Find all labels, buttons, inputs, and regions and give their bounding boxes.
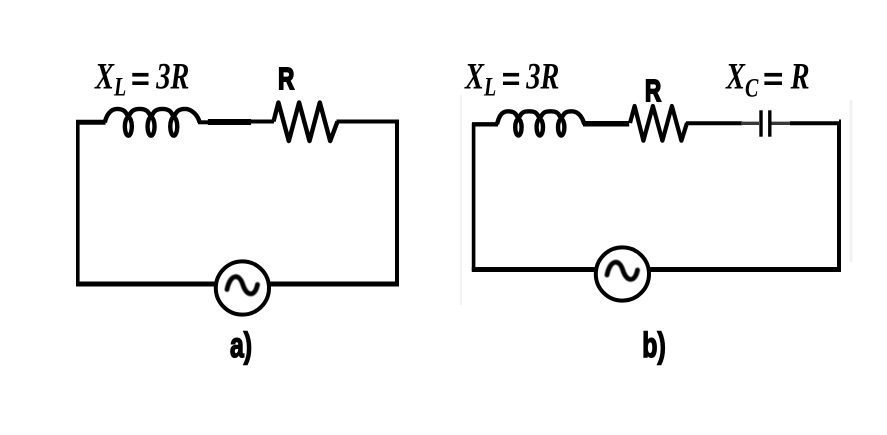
svg-text:XL: XL bbox=[94, 57, 126, 102]
svg-text:3R: 3R bbox=[525, 57, 559, 97]
svg-text:XL: XL bbox=[464, 57, 496, 102]
svg-text:b): b) bbox=[642, 326, 665, 365]
svg-text:a): a) bbox=[230, 326, 252, 365]
svg-text:R: R bbox=[645, 73, 661, 107]
svg-text:R: R bbox=[790, 57, 810, 97]
svg-text:R: R bbox=[278, 61, 294, 95]
svg-text:XC: XC bbox=[725, 57, 759, 103]
svg-text:3R: 3R bbox=[155, 57, 189, 97]
